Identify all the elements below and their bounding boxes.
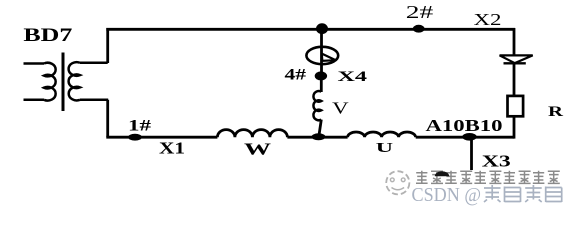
node 1# dot — [128, 134, 142, 141]
wire left vertical from top rail to transformer — [106, 28, 109, 63]
wire diode to resistor — [513, 63, 516, 96]
transformer BD7 primary bottom lead — [24, 99, 45, 102]
svg-text:X2: X2 — [474, 10, 502, 29]
inductor W — [217, 130, 287, 138]
svg-text:X3: X3 — [482, 152, 511, 171]
watermark gray text 高速铁路信号技术交流 — [416, 171, 560, 184]
svg-text:U: U — [376, 141, 393, 156]
watermark blue text 功能安全 — [484, 185, 562, 202]
svg-text:A10B10: A10B10 — [426, 116, 503, 135]
diode D1 — [500, 55, 533, 63]
wire X3 stub — [470, 137, 473, 170]
svg-text:W: W — [244, 140, 272, 159]
node junction dot V to bottom rail — [312, 133, 326, 140]
wire left vertical from transformer to bottom rail — [106, 100, 109, 137]
transformer BD7 secondary bottom lead — [80, 99, 108, 102]
wire right vertical top (X2 to diode) — [513, 28, 516, 55]
svg-text:X1: X1 — [159, 139, 185, 158]
watermark logo circle — [386, 171, 409, 194]
inductor V winding — [313, 91, 321, 120]
transformer BD7 secondary winding — [69, 62, 80, 100]
inductor U — [348, 132, 416, 137]
transformer BD7 primary winding — [44, 63, 56, 101]
transformer BD7 primary top lead — [24, 62, 45, 65]
wire bottom rail right segment — [416, 136, 514, 139]
transformer BD7 secondary top lead — [80, 62, 108, 65]
node junction dot on top rail above lamp — [316, 23, 328, 34]
node 4# dot — [315, 71, 327, 80]
transformer BD7 core — [62, 53, 65, 112]
resistor R — [508, 96, 524, 116]
inductor V wire below — [319, 120, 322, 137]
svg-text:R: R — [548, 104, 564, 120]
lamp indicator ellipse — [306, 47, 338, 64]
inductor V wire above — [320, 76, 323, 92]
lamp indicator vertical wire through ellipse — [320, 29, 323, 76]
svg-text:4#: 4# — [285, 67, 307, 84]
lamp indicator flag triangle — [322, 54, 336, 61]
svg-text:CSDN @: CSDN @ — [412, 185, 482, 206]
wire bottom rail left segment — [106, 136, 217, 139]
wire top rail — [106, 28, 515, 31]
svg-text:X4: X4 — [338, 69, 368, 85]
svg-text:V: V — [332, 99, 349, 118]
svg-text:BD7: BD7 — [23, 25, 73, 46]
svg-text:2#: 2# — [406, 2, 434, 22]
wire resistor to bottom rail — [513, 116, 516, 138]
svg-text:1#: 1# — [128, 118, 151, 135]
wire bottom rail middle segment — [287, 136, 347, 139]
node A10B10 junction dot — [462, 133, 477, 141]
watermark dark blob artifact — [435, 171, 449, 176]
node 2# dot — [413, 25, 425, 33]
